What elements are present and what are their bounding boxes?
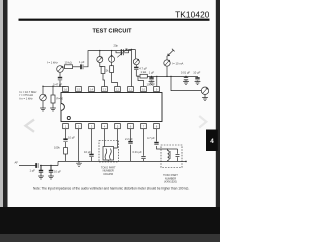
IC pin-1 dot: [67, 116, 70, 119]
pin 5 bottom square: [115, 124, 121, 129]
capacitor C12 inside coil box: [176, 149, 180, 161]
junction node at SG2 top: [42, 86, 43, 87]
svg-text:14: 14: [90, 88, 94, 92]
wire R3 to pin13: [103, 74, 105, 87]
trimmer capacitor CT1: [116, 49, 129, 58]
bus right terminal: [185, 161, 187, 163]
resistor R4 vertical box: [110, 66, 114, 73]
wire M1 to R3: [100, 63, 103, 67]
wire pin4 down to discriminator: [104, 129, 106, 147]
resistor R2 10k box: [65, 65, 73, 69]
pin 10 top square: [141, 87, 147, 92]
M1 arrow: [98, 57, 102, 62]
svg-text:1 µF: 1 µF: [30, 169, 36, 173]
junction rail pin9: [156, 76, 157, 77]
pin 1 bottom square: [63, 124, 69, 129]
resistor R6 box on pin1 wire: [64, 148, 68, 155]
junction C14: [40, 165, 41, 166]
pin 3 bottom square: [89, 124, 95, 129]
wire R2 to C2: [73, 66, 81, 68]
svg-text:f = 1 kHz: f = 1 kHz: [47, 61, 58, 65]
capacitor C14 shunt: [39, 166, 43, 177]
IC body U1: [61, 93, 162, 122]
junction M4 rail: [166, 76, 167, 77]
svg-text:20p: 20p: [114, 43, 119, 47]
pin 15 top square: [76, 87, 82, 92]
svg-text:0.01 µF: 0.01 µF: [133, 150, 143, 154]
right black page-edge bar: [216, 0, 220, 242]
svg-text:I = 10 mA: I = 10 mA: [172, 61, 184, 65]
wire M2 to R4: [111, 62, 113, 65]
pin 12 top square: [115, 87, 121, 92]
svg-text:(KXN1520): (KXN1520): [164, 180, 177, 184]
svg-text:4.7 µF: 4.7 µF: [147, 136, 155, 140]
wire coil box top link: [168, 148, 178, 150]
coil L1: [168, 150, 171, 161]
svg-text:TK10420: TK10420: [175, 9, 210, 19]
right nav chevron: [199, 116, 206, 128]
discriminator label block: [101, 165, 116, 176]
wire M5 to ground: [204, 94, 206, 97]
pin 9 top square: [154, 87, 160, 92]
meter M3 circle: [133, 59, 139, 65]
resistor R3 vertical box: [101, 67, 105, 74]
signal generator SG2 circle: [40, 94, 47, 101]
junction C4 rail: [151, 76, 152, 77]
svg-text:100k: 100k: [54, 146, 60, 150]
ground below SG2: [40, 108, 46, 111]
junction pin11 wire: [131, 49, 132, 50]
ground below R1: [50, 108, 56, 111]
quad coil dashed box: [161, 145, 182, 168]
ground below C5: [183, 82, 189, 85]
discriminator dashed box: [99, 141, 119, 163]
top pin numbers: [64, 88, 158, 92]
svg-text:10 µF: 10 µF: [84, 150, 91, 154]
ground stub below bus at pin2: [76, 161, 82, 166]
ground below C6: [195, 82, 201, 85]
supply arrow Vcc: [168, 49, 175, 56]
ground below M5: [202, 98, 208, 101]
pin 16 top square: [63, 87, 69, 92]
wire pin1 down: [65, 129, 67, 162]
ground below C14: [38, 176, 44, 179]
capacitor C3 4.7uF below M3: [134, 65, 138, 76]
svg-text:10: 10: [142, 88, 146, 92]
wire pin8 down: [157, 129, 168, 150]
SG2 arrow: [41, 95, 46, 100]
signal generator SG2 10.7MHz vertical leads: [42, 86, 44, 108]
svg-text:10 kΩ: 10 kΩ: [65, 61, 72, 65]
capacitor C11 4.7uF on pin8: [154, 143, 158, 145]
section tab 4: [206, 130, 218, 152]
wire pin3 down: [91, 129, 93, 162]
svg-text:10 µF: 10 µF: [193, 70, 200, 74]
signal generator SG1 1kHz circle: [57, 66, 64, 73]
quad coil label block: [163, 173, 178, 184]
meter M1 circle: [97, 57, 103, 63]
wire C2 up to top rail y50.6: [84, 51, 132, 67]
svg-text:0.01 µF: 0.01 µF: [181, 70, 191, 74]
wire C3 to R5 and pin10: [136, 76, 143, 86]
capacitor C8 on pin3: [89, 155, 93, 157]
svg-text:0.47 µF: 0.47 µF: [53, 82, 63, 86]
wire M4 leads: [166, 56, 168, 77]
wire trimmer to pin11 and M3: [129, 50, 136, 87]
capacitor C13 series 1uF: [36, 163, 38, 168]
bottom pin numbers: [65, 125, 158, 129]
pin 11 top square: [128, 87, 134, 92]
supply rail wire y76.4: [147, 75, 197, 77]
capacitor C4 1uF shunt: [149, 76, 153, 81]
pin 14 top square: [89, 87, 95, 92]
pin 7 bottom square: [141, 124, 147, 129]
wire AF line up to bus: [57, 161, 59, 165]
capacitor C6 10uF shunt: [195, 76, 199, 81]
svg-text:4: 4: [210, 138, 214, 145]
IC notch: [61, 104, 64, 111]
capacitor C2 1uF series: [81, 64, 83, 69]
pin 6 bottom square: [128, 124, 134, 129]
svg-text:10 µF: 10 µF: [68, 136, 75, 140]
meter M2 circle: [109, 56, 115, 62]
svg-text:1 µF: 1 µF: [149, 70, 155, 74]
page background: [0, 0, 220, 242]
left outer gray strip: [0, 0, 3, 242]
stub to meter M1: [99, 51, 101, 57]
pin 2 bottom square: [76, 124, 82, 129]
ground below C4: [149, 82, 155, 85]
svg-text:f m = 1 kHz: f m = 1 kHz: [20, 96, 34, 100]
junction node at R1 top: [52, 86, 53, 87]
pin 13 top square: [102, 87, 108, 92]
resistor R1 50 ohm leads: [52, 86, 54, 108]
svg-text:1 µF: 1 µF: [79, 60, 85, 64]
svg-text:R=50: R=50: [57, 97, 64, 101]
output meter M5 circle: [201, 87, 208, 94]
junction at M1 stub: [99, 50, 100, 51]
wire SG1 to R2: [63, 66, 64, 68]
bottom black band: [0, 207, 220, 234]
wire rail to meter M5: [171, 76, 201, 90]
svg-text:CDA456: CDA456: [103, 172, 113, 176]
svg-text:10 µF: 10 µF: [54, 170, 61, 174]
capacitor C9 2.2uF on pin6: [128, 142, 132, 144]
svg-text:15: 15: [77, 88, 81, 92]
svg-text:13: 13: [103, 88, 107, 92]
SG1 arrow: [58, 66, 63, 71]
junction C5 rail: [185, 76, 186, 77]
bottom pin squares: [63, 124, 160, 129]
svg-text:22k: 22k: [104, 69, 109, 73]
junction rail drop: [170, 76, 171, 77]
ammeter M4 circle: [164, 60, 170, 66]
svg-text:4.7 µF: 4.7 µF: [139, 66, 147, 70]
left nav chevron: [26, 120, 35, 132]
M2 arrow: [111, 55, 113, 62]
wire bus to pin16: [65, 85, 67, 87]
wire R4 to pin12: [112, 73, 118, 87]
wire pin7 down: [143, 129, 145, 162]
wire pin6 down: [130, 129, 132, 162]
wire pin2 down: [78, 129, 80, 162]
svg-text:TEST CIRCUIT: TEST CIRCUIT: [92, 28, 132, 34]
X1 inner electrodes: [105, 149, 111, 160]
ground bus y161.4: [58, 160, 186, 162]
capacitor C1 0.47uF vertical: [58, 72, 62, 86]
svg-text:Note: The input impedance of: Note: The input impedance of the audio v…: [33, 186, 189, 190]
M3 arrow: [134, 59, 138, 64]
wire rail down to pin9: [156, 76, 158, 86]
junction C15: [50, 165, 51, 166]
ground below C15: [48, 176, 54, 179]
svg-text:11: 11: [129, 88, 132, 92]
header rule: [19, 19, 210, 21]
M4 arrow: [165, 60, 170, 65]
junction C1 to bus: [59, 86, 60, 87]
X1 center lead to bus: [107, 160, 109, 161]
svg-text:1 kΩ: 1 kΩ: [141, 70, 147, 74]
bottom dark gray band: [0, 234, 220, 242]
capacitor C7 10uF on pin1: [63, 139, 67, 141]
stub to meter M2: [111, 51, 113, 57]
capacitor C15 shunt 10uF: [49, 166, 53, 177]
junction at M2 stub: [111, 50, 112, 51]
pin 8 bottom square: [154, 124, 160, 129]
svg-text:100 µF: 100 µF: [147, 83, 156, 87]
svg-text:16: 16: [64, 88, 68, 92]
wire pin5 down to discriminator: [114, 129, 118, 148]
capacitor C10 0.01uF on pin7: [141, 157, 145, 159]
svg-text:AF: AF: [15, 161, 19, 165]
left black page-edge bar: [3, 0, 8, 242]
discriminator X1 body: [103, 147, 114, 161]
resistor R1 50 ohm box: [51, 95, 55, 103]
resistor R5 1k box horizontal: [140, 74, 147, 78]
top pin squares: [63, 87, 160, 92]
capacitor C5 0.01uF shunt: [184, 76, 188, 81]
SG2 label block: [20, 90, 38, 100]
AF output wire: [19, 165, 58, 167]
svg-text:2.2 µF: 2.2 µF: [125, 137, 133, 141]
M5 arrow: [203, 88, 208, 93]
junction C3 node: [137, 76, 138, 77]
pin 4 bottom square: [102, 124, 108, 129]
wire input bus y86.5: [43, 85, 66, 87]
svg-text:12: 12: [116, 88, 120, 92]
